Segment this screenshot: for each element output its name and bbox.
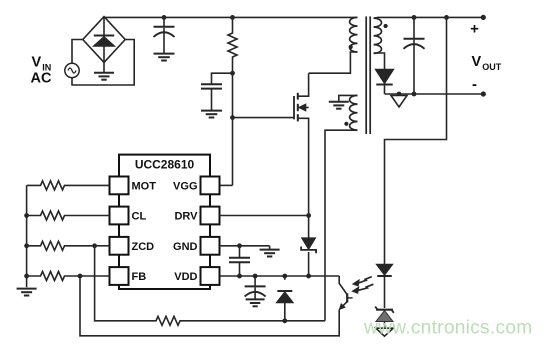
transistor Q1 drain lead (298, 73, 309, 96)
diode output rectifier (375, 69, 394, 84)
node FB rail (24, 274, 29, 279)
node output cap / top rail (412, 15, 417, 20)
wire zener to output ground (384, 322, 386, 329)
resistor CL (27, 211, 110, 220)
node output ground junction (397, 92, 402, 97)
wire DRV pin to source (220, 215, 309, 217)
node FB junction (78, 274, 83, 279)
node GND cap junction (237, 243, 242, 248)
ground below VGG cap (201, 111, 222, 118)
wire aux top to ground (339, 95, 358, 101)
svg-text:FB: FB (132, 271, 147, 283)
capacitor VGG (201, 84, 222, 110)
wire VGG riser (232, 73, 234, 185)
wire zener to VDD row (308, 252, 310, 276)
svg-text:V: V (472, 54, 482, 70)
ground aux winding (329, 102, 349, 109)
node output cap / bottom rail (412, 92, 417, 97)
ground output (open triangle) (391, 96, 407, 108)
ground below bridge (94, 62, 114, 79)
svg-text:ZCD: ZCD (132, 241, 155, 253)
pin GND (173, 237, 219, 255)
node DRV source junction (306, 213, 311, 218)
wire secondary bottom to diode (374, 53, 385, 69)
label - output (472, 76, 477, 93)
svg-text:DRV: DRV (174, 211, 198, 223)
node DRV zener / VDD row (306, 274, 311, 279)
node primary phase dot (349, 45, 353, 49)
AC source VIN (65, 63, 79, 77)
pin ZCD (110, 237, 155, 255)
capacitor VDD bulk (245, 276, 266, 299)
pin DRV (174, 207, 219, 225)
wire AC source to bridge right vertex (72, 40, 134, 86)
resistor MOT (27, 181, 110, 190)
node gate junction (230, 115, 235, 120)
transistor Q1 source lead (298, 118, 309, 215)
svg-text:GND: GND (173, 241, 198, 253)
label VOUT (472, 54, 502, 72)
node input cap / top rail (162, 15, 167, 20)
node VDD diode junction (282, 274, 287, 279)
wire top rail primary side (104, 16, 358, 18)
transformer T1 secondary winding (374, 18, 382, 53)
resistor ZCD-aux (155, 316, 181, 325)
optocoupler phototransistor emitter (339, 302, 347, 310)
zener clamp DRV (301, 238, 316, 253)
transformer T1 aux winding (350, 95, 358, 130)
pin CL (110, 207, 147, 225)
node VDD diode / aux wire (282, 318, 287, 323)
wire gate (233, 117, 295, 119)
wire source to zener (308, 216, 310, 238)
transistor Q1 body arrow (298, 104, 309, 111)
wire VDD row (220, 275, 340, 277)
node startup resistor / top rail (230, 15, 235, 20)
svg-text:-: - (472, 76, 477, 93)
wire VGG cap tap (212, 73, 233, 84)
wire GND pin (220, 245, 270, 247)
svg-text:MOT: MOT (132, 180, 157, 192)
wire diode to output return (384, 86, 386, 95)
wire ZCD to aux bottom (95, 246, 155, 321)
ground left rail (17, 289, 37, 296)
watermark (363, 318, 532, 339)
capacitor input bulk (154, 17, 175, 53)
node sense line / top rail (444, 15, 449, 20)
node VGG cap junction (230, 71, 235, 76)
bridge rectifier BR1 diamond (83, 17, 125, 63)
wire left rail (26, 185, 28, 287)
wire primary bottom to drain (309, 52, 358, 73)
label + output (470, 21, 479, 38)
transformer T1 primary winding (350, 17, 358, 52)
terminal + output (481, 15, 486, 20)
ground GND pin (260, 246, 280, 257)
wire aux bottom lead (325, 130, 358, 321)
terminal - output (481, 91, 486, 96)
op-amp U1 UCC28610 body (119, 155, 210, 289)
transistor Q1 gate bar (293, 96, 295, 119)
transformer T1 core (366, 16, 370, 134)
svg-text:OUT: OUT (482, 62, 502, 72)
resistor startup (228, 17, 237, 73)
optocoupler light arrows (352, 277, 373, 294)
wire FB to opto emitter (80, 276, 339, 336)
svg-text:V: V (32, 55, 42, 71)
svg-text:VDD: VDD (174, 271, 197, 283)
node CL rail (24, 213, 29, 218)
ground below VDD bulk cap (246, 299, 265, 306)
svg-text:+: + (470, 21, 479, 38)
optocoupler phototransistor collector (339, 276, 347, 295)
capacitor output (404, 17, 425, 94)
capacitor VDD-GND (229, 246, 250, 276)
bridge rectifier internal diode (93, 17, 115, 63)
pin VDD (174, 267, 219, 285)
wire aux bottom run (181, 320, 325, 322)
resistor FB (27, 272, 110, 281)
node VDD-GND cap junction (237, 274, 242, 279)
label VIN (31, 55, 52, 87)
wire output return rail (385, 93, 484, 95)
diode optocoupler LED (376, 264, 393, 308)
transistor Q1 channel segments (297, 93, 299, 122)
node ZCD junction (92, 243, 97, 248)
svg-text:UCC28610: UCC28610 (135, 158, 195, 172)
resistor ZCD (27, 241, 110, 250)
label UCC28610 (135, 158, 195, 172)
wire VGG pin connection (220, 184, 233, 186)
node ZCD rail (24, 243, 29, 248)
node aux phase dot (344, 122, 348, 126)
wire sense line (385, 17, 447, 264)
optocoupler phototransistor base tick (347, 297, 352, 299)
svg-text:AC: AC (31, 71, 52, 87)
ground below input cap (154, 54, 175, 61)
pin VGG (173, 177, 219, 195)
svg-text:CL: CL (132, 211, 147, 223)
diode VDD rectifier (276, 276, 293, 321)
ground output feedback (open triangle) (376, 328, 393, 336)
wire secondary top rail (374, 16, 484, 19)
node secondary phase dot (384, 24, 388, 28)
svg-text:www.cntronics.com: www.cntronics.com (363, 318, 532, 339)
svg-text:VGG: VGG (173, 180, 197, 192)
node VDD bulk cap junction (253, 274, 258, 279)
wire AC source to bridge left vertex (72, 40, 83, 64)
zener feedback (375, 307, 394, 322)
optocoupler phototransistor bar (346, 293, 348, 302)
pin FB (110, 267, 147, 285)
pin MOT (110, 177, 157, 195)
